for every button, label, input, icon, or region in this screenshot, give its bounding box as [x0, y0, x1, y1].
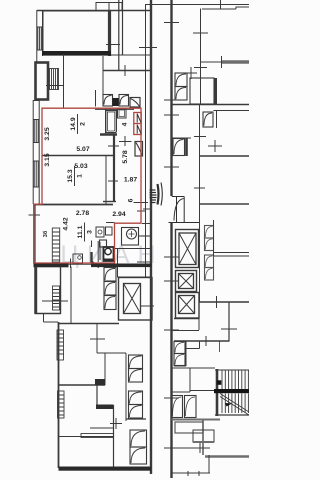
tick 1.87: [108, 180, 118, 182]
vestibule niche: [169, 197, 200, 223]
wall y263 thick B: [91, 264, 152, 268]
vent boxes right col A: [129, 355, 143, 382]
elevator R3 inner: [179, 296, 195, 314]
tick cross a: [194, 136, 206, 138]
svg-text:4: 4: [122, 122, 129, 126]
kitchen top wall: [34, 204, 114, 206]
wall under red top: [95, 108, 134, 110]
wall y436: [59, 436, 114, 438]
elevator R2 inner: [179, 274, 194, 289]
corridor vent box: [173, 139, 185, 156]
wall y156: [200, 155, 249, 157]
tick wall2: [141, 305, 154, 307]
tick y47 wing wall: [139, 47, 157, 49]
vent boxes right col B: [129, 391, 143, 418]
wall thick right of top room: [108, 11, 111, 56]
corridor left wall: [113, 134, 115, 202]
wall x199b: [198, 319, 200, 331]
rooms upper stairs: [172, 368, 215, 392]
rooms right wall lower: [105, 156, 107, 205]
tick: [221, 56, 223, 68]
wall y110: [214, 110, 250, 112]
kitchen appliance: [73, 254, 83, 264]
thick gray wall y62: [222, 60, 249, 63]
top room outline: [43, 11, 108, 51]
vent boxes right col C: [130, 430, 147, 464]
hatched block: [50, 69, 59, 90]
room walls: [35, 267, 61, 315]
wall y419 gray: [172, 419, 221, 421]
wall x213: [213, 220, 215, 256]
corridor thick wall: [185, 138, 188, 156]
wall x105: [104, 353, 106, 385]
wall y419: [126, 418, 146, 420]
upper bath wall v: [95, 90, 97, 107]
wall y366: [174, 365, 186, 367]
wall left outer upper (double): [37, 10, 43, 62]
stairs left wall: [216, 369, 219, 416]
label 3b: [42, 230, 49, 237]
wall thick bottom of top room: [42, 51, 111, 56]
svg-text:6: 6: [128, 198, 135, 202]
bath bottom wall: [100, 133, 117, 136]
wall y204 gray: [200, 203, 249, 205]
vent boxes left of elevator: [104, 268, 116, 310]
tick left wall: [29, 214, 41, 216]
wall piece thick: [95, 379, 105, 385]
tick cross bath: [119, 136, 132, 146]
wall x97: [96, 324, 98, 354]
tick cross b: [208, 140, 222, 152]
svg-text:15.3: 15.3: [67, 169, 74, 182]
shaft box B3: [135, 142, 143, 157]
tick y302: [216, 296, 218, 308]
wall left outer upper: [170, 0, 172, 196]
stair room left: [35, 267, 71, 324]
wall y62 thin: [201, 61, 223, 63]
wall y252 double: [214, 253, 250, 257]
cistern: [100, 240, 107, 247]
tick wall: [143, 208, 152, 210]
wall x186: [185, 341, 187, 366]
tick: [42, 300, 68, 302]
wall left outer lower: [170, 222, 172, 478]
wall y323: [59, 323, 120, 325]
vent boxes right of elevators: [205, 226, 214, 281]
upper fixture 2: [119, 95, 129, 107]
WC door leaf: [92, 262, 99, 268]
wall y448: [172, 443, 210, 453]
red shaft box: [134, 113, 141, 135]
wall x229: [228, 302, 230, 341]
wall x199 mid: [199, 105, 201, 303]
svg-text:5.78: 5.78: [122, 150, 129, 163]
corridor room wall y138: [172, 137, 191, 139]
svg-text:3б: 3б: [42, 230, 49, 237]
kitchen sink counter: [96, 227, 112, 237]
wall y330: [172, 330, 200, 332]
tick y341: [205, 336, 207, 346]
wall bottom right: [172, 455, 210, 476]
svg-text:5.03: 5.03: [74, 163, 87, 170]
svg-text:11.1: 11.1: [77, 225, 84, 238]
wall y353: [97, 352, 126, 354]
svg-text:1: 1: [77, 174, 84, 178]
svg-text:1.87: 1.87: [124, 177, 137, 184]
door leaf bold: [158, 184, 159, 205]
bathtub: [106, 111, 117, 133]
shaft box B1: [130, 98, 140, 108]
stairs: [214, 370, 249, 415]
wall x121 double: [119, 0, 123, 70]
elevator L outer: [119, 278, 153, 321]
wall x113: [113, 405, 115, 467]
wall above elevator: [117, 249, 119, 278]
wall y385: [59, 384, 105, 386]
shaft thick box left: [36, 63, 49, 100]
wall x97 lower: [96, 385, 98, 405]
wall x200: [200, 9, 202, 105]
label 6: [128, 198, 135, 202]
tick 5.78: [108, 145, 119, 147]
wall corner thick: [96, 405, 114, 410]
thick wall right of room: [214, 78, 217, 104]
corridor end wall: [103, 201, 116, 203]
wall x216 below: [216, 111, 218, 129]
elevator L inner: [124, 284, 141, 314]
toilet: [104, 247, 114, 262]
label room2 fraction: [70, 117, 87, 130]
svg-text:3.25: 3.25: [44, 127, 51, 140]
tick red wall: [137, 210, 146, 212]
wc niche wall: [99, 242, 101, 260]
elevator R1 inner: [179, 233, 196, 265]
room 422: [175, 422, 203, 433]
elevator R3 outer: [176, 293, 200, 319]
upper fixture 1: [103, 95, 113, 107]
wall y341: [174, 340, 230, 342]
door arc thin: [161, 183, 162, 206]
garbage room box: [122, 228, 139, 246]
wall y70 corridor top: [103, 70, 151, 72]
wall y428: [90, 427, 114, 429]
door spring comb: [150, 190, 157, 203]
wall double segment: [81, 434, 114, 438]
sink bath: [118, 109, 127, 119]
tick: [90, 338, 105, 340]
wall left outer lower (double): [33, 100, 39, 204]
garbage chute: [127, 229, 152, 239]
label room3 fraction: [77, 225, 94, 238]
hall wall x71: [70, 267, 72, 324]
top wall double: [202, 7, 249, 9]
tick x229: [221, 328, 237, 330]
window W1: [37, 27, 43, 50]
room divider y155: [42, 155, 115, 157]
upper boundary line: [146, 4, 250, 6]
wing right wall: [150, 0, 152, 474]
svg-text:2.94: 2.94: [112, 211, 125, 218]
tick x199 y188: [194, 187, 205, 189]
vent box tall: [174, 342, 185, 366]
tick y44 wall: [106, 44, 120, 46]
wall stub top right: [220, 0, 222, 9]
WC wall dark part: [90, 252, 92, 263]
vent box: [203, 112, 213, 127]
tick x200b: [194, 67, 207, 69]
window W3: [33, 161, 39, 187]
left outer wall lower: [58, 322, 60, 468]
wall x219b: [219, 341, 221, 352]
wall x63: [63, 54, 65, 108]
svg-text:4.42: 4.42: [63, 217, 70, 230]
wall x126: [125, 353, 127, 421]
wall ticks: [164, 23, 179, 449]
window ladder B: [58, 391, 65, 418]
vestibule door arc: [174, 199, 184, 221]
room 190x78: [190, 78, 214, 104]
svg-text:14.9: 14.9: [70, 117, 77, 130]
wall y263 thick A: [34, 264, 69, 268]
wall below E3: [174, 318, 199, 320]
tick bottom red: [70, 259, 72, 269]
red boundary: [34, 108, 141, 263]
wall step y100: [33, 100, 39, 102]
window ladder A: [57, 330, 64, 360]
wall y302: [200, 301, 250, 303]
tick cross: [185, 67, 197, 79]
wall y348 step: [186, 341, 200, 349]
wall x103: [102, 56, 104, 97]
step out wall: [44, 314, 59, 322]
label room1 fraction: [67, 169, 84, 182]
tick room right: [137, 261, 152, 263]
tick cross: [110, 418, 122, 429]
wall right of red corner: [142, 223, 151, 225]
wall top outer: [37, 10, 152, 12]
bottom thick wall: [59, 467, 152, 471]
tick: [46, 85, 63, 87]
ladder: [53, 286, 60, 310]
svg-text:2: 2: [80, 122, 87, 126]
wall y456 gray: [205, 455, 249, 458]
svg-text:3: 3: [87, 230, 94, 234]
WC wall: [92, 241, 99, 264]
svg-text:3.15: 3.15: [44, 153, 51, 166]
wing inner wall line: [145, 4, 147, 278]
tick 6: [134, 202, 149, 204]
wall y55 thin: [111, 54, 151, 56]
label 3.15: [44, 153, 51, 166]
tick: [193, 32, 208, 34]
rooms right wall upper: [105, 108, 107, 135]
tick y70 wall: [124, 65, 126, 76]
wall y263 thin mid: [68, 263, 91, 265]
vent boxes top: [175, 73, 187, 100]
room 430: [193, 430, 214, 442]
elevator R1 outer: [176, 230, 199, 268]
wall left of red corner: [106, 222, 115, 224]
label 4: [122, 122, 129, 126]
window W2: [33, 120, 39, 143]
balcony door notch: [96, 3, 122, 11]
kitchen window ladder: [52, 228, 59, 262]
upper fixture dark: [113, 98, 120, 106]
long wall y104: [172, 104, 250, 106]
wall x203: [202, 420, 204, 455]
svg-text:2.78: 2.78: [76, 210, 89, 217]
label 4.42: [63, 217, 70, 230]
label 3.25: [44, 127, 51, 140]
wall behind red left: [34, 205, 36, 263]
elevator R2 outer: [176, 271, 197, 292]
vent boxes below stairs: [172, 396, 197, 418]
garbage room bottom wall: [114, 248, 152, 250]
label 5.78: [122, 150, 129, 163]
svg-text:5.07: 5.07: [76, 146, 89, 153]
room below wall: [117, 276, 151, 278]
